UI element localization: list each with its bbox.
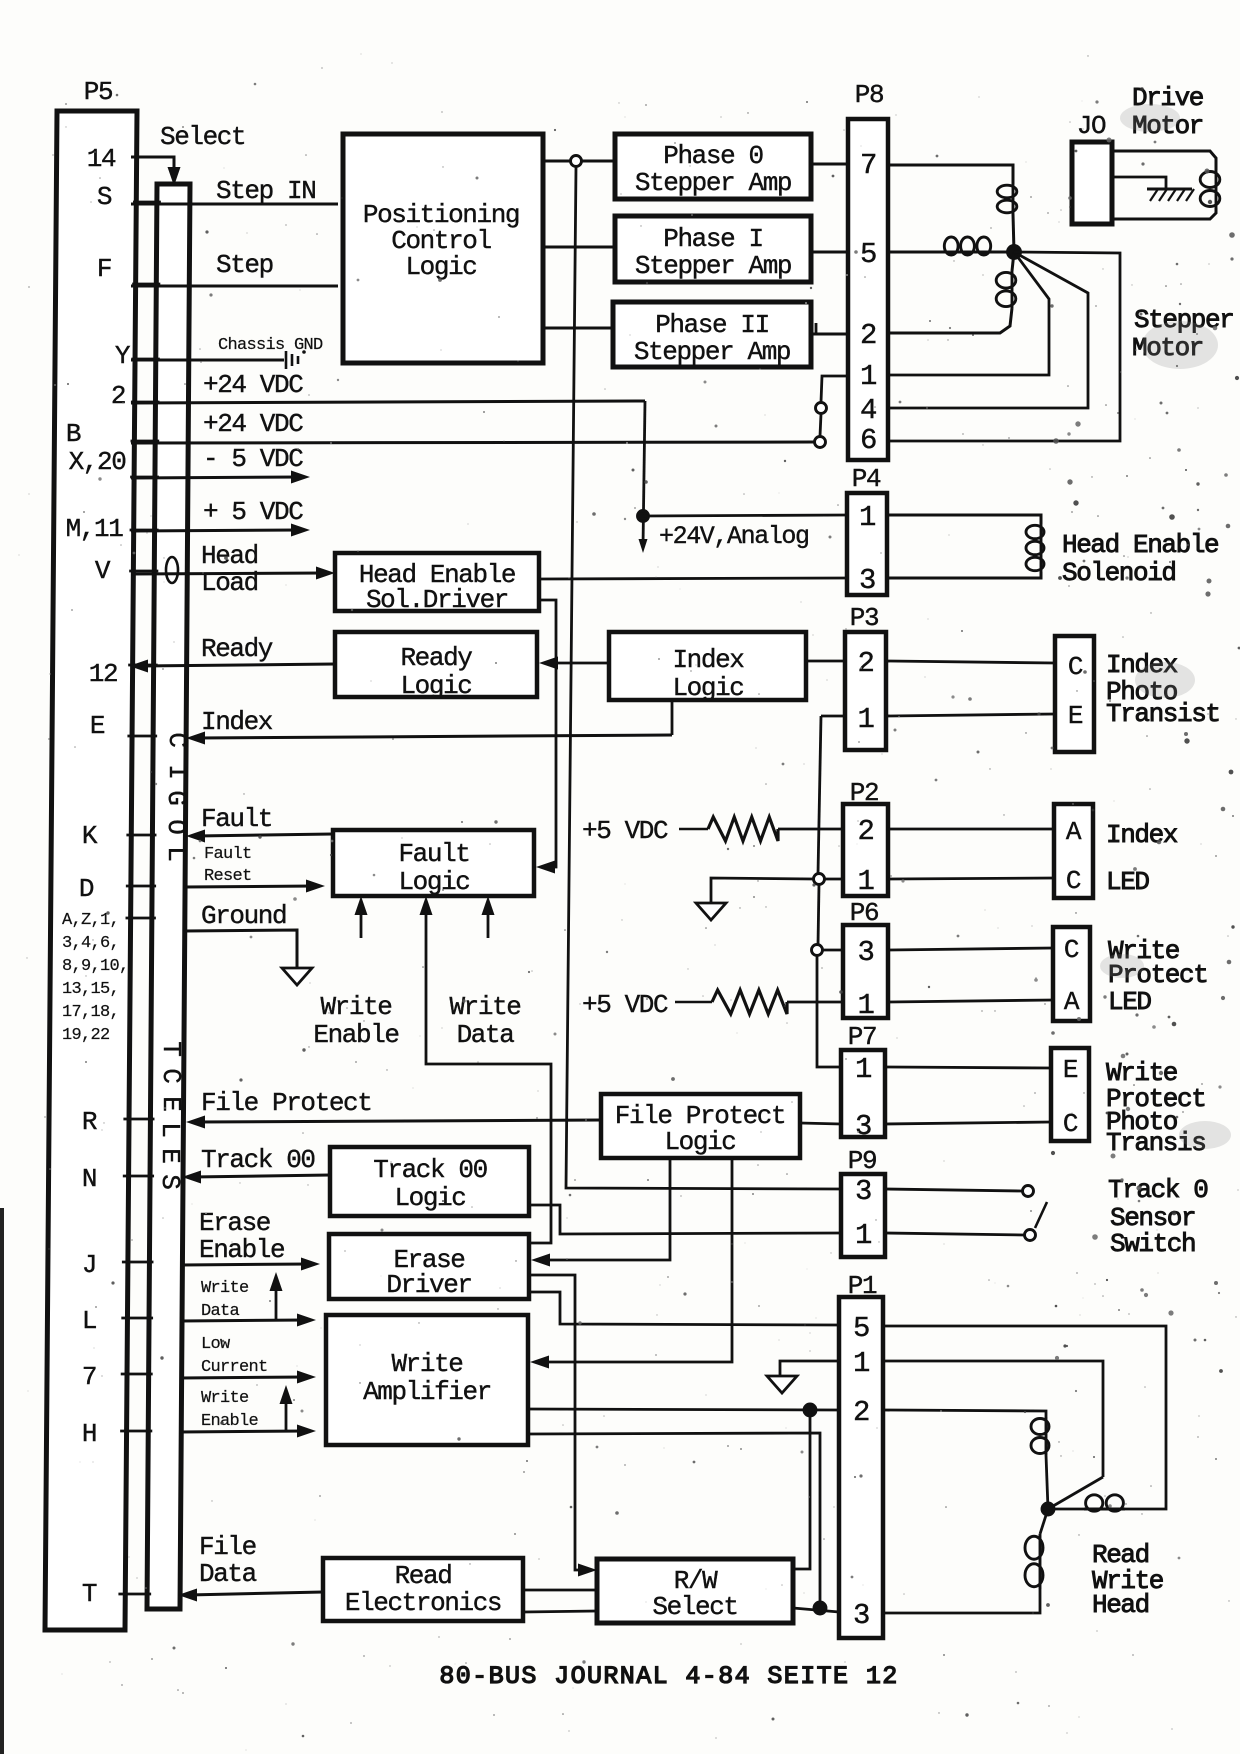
read head coil upper xyxy=(1031,1417,1049,1455)
label Write Enable small xyxy=(201,1389,259,1431)
svg-text:3: 3 xyxy=(859,564,875,597)
P5 pin label M,11 xyxy=(66,514,124,544)
svg-text:Y: Y xyxy=(115,341,131,371)
svg-text:17,18,: 17,18, xyxy=(62,1003,119,1022)
svg-text:C: C xyxy=(1063,1109,1078,1139)
wire file protect logic to P7.3 xyxy=(800,1123,841,1124)
box File Protect Logic xyxy=(601,1094,800,1158)
resistor R index led xyxy=(708,817,778,841)
svg-text:3: 3 xyxy=(857,936,873,969)
wire phase2 out to P8 pin 2 xyxy=(811,333,848,336)
ground symbol at P1 xyxy=(767,1376,797,1393)
wire index logic bottom to index line xyxy=(671,700,674,735)
svg-text:Logic: Logic xyxy=(664,1127,735,1157)
svg-text:F: F xyxy=(97,254,111,284)
wire P6.1 to WP LED A xyxy=(888,1000,1053,1002)
svg-text:X,20: X,20 xyxy=(69,447,126,477)
box index LED xyxy=(1054,804,1093,898)
svg-text:C: C xyxy=(162,732,192,748)
svg-text:Logic: Logic xyxy=(394,1183,465,1213)
svg-text:O: O xyxy=(161,819,191,835)
P5 pin label R xyxy=(82,1107,97,1137)
read head coil lower xyxy=(1025,1509,1048,1589)
svg-text:Track 00: Track 00 xyxy=(373,1155,487,1185)
svg-text:Ground: Ground xyxy=(201,901,286,931)
wire FPL to erase driver xyxy=(531,1158,670,1267)
wire step xyxy=(131,285,338,288)
svg-text:D: D xyxy=(79,874,94,904)
connector P4 xyxy=(847,464,887,597)
label Write Data xyxy=(449,992,520,1050)
svg-text:A: A xyxy=(1064,987,1080,1017)
svg-text:E: E xyxy=(1068,701,1083,731)
wire phase1 xyxy=(544,246,615,249)
svg-text:2: 2 xyxy=(857,647,873,680)
wire ground xyxy=(184,930,297,968)
svg-text:Write: Write xyxy=(391,1349,462,1379)
svg-text:N: N xyxy=(82,1164,96,1194)
svg-text:Head: Head xyxy=(1092,1590,1149,1620)
wire to P4 pin 1 xyxy=(643,515,847,516)
head enable solenoid coil xyxy=(1026,524,1044,572)
label + 5 VDC xyxy=(203,497,303,527)
wire +24V analog drop xyxy=(639,401,648,553)
P5 ground pins label A,Z,1,3,4,6,8,9,10,13,15,17,18,19,22 xyxy=(62,911,129,1045)
svg-text:3,4,6,: 3,4,6, xyxy=(62,934,119,953)
svg-text:LED: LED xyxy=(1108,987,1151,1017)
svg-text:S: S xyxy=(97,182,112,212)
label Index xyxy=(201,707,273,737)
connector P9 xyxy=(841,1146,885,1257)
P5 pin label B xyxy=(66,419,81,449)
signal Step IN label xyxy=(216,176,315,206)
svg-text:80-BUS JOURNAL 4-84 SEITE 12: 80-BUS JOURNAL 4-84 SEITE 12 xyxy=(439,1662,898,1691)
svg-text:T: T xyxy=(156,1041,186,1057)
svg-text:P4: P4 xyxy=(852,464,881,494)
svg-text:P9: P9 xyxy=(848,1146,876,1176)
wire +5VDC xyxy=(131,524,310,537)
wire +5vdc 2 xyxy=(675,1001,712,1004)
svg-text:1: 1 xyxy=(859,501,875,534)
wire P8.5 to stepper coil xyxy=(888,251,943,254)
scan smudges xyxy=(1100,104,1231,1149)
svg-text:3: 3 xyxy=(855,1175,871,1208)
svg-text:JO: JO xyxy=(1077,111,1106,141)
svg-text:1: 1 xyxy=(857,989,873,1022)
svg-text:T: T xyxy=(82,1579,97,1609)
svg-text:Amplifier: Amplifier xyxy=(363,1377,491,1407)
svg-text:L: L xyxy=(161,846,191,862)
stepper coil phase2 (below junction) xyxy=(888,252,1016,333)
svg-text:+5 VDC: +5 VDC xyxy=(582,816,668,846)
fault logic write data riser xyxy=(420,896,552,1243)
svg-text:H: H xyxy=(82,1419,96,1449)
junction dot +24V analog xyxy=(638,511,649,522)
svg-text:Fault: Fault xyxy=(201,804,272,834)
wire P2.1 to index LED C xyxy=(888,878,1054,879)
wire select (pin 14 to bar top) xyxy=(131,157,181,186)
svg-text:Phase 0: Phase 0 xyxy=(663,141,762,171)
box Fault Logic xyxy=(333,830,534,897)
P5 pin label H xyxy=(82,1419,96,1449)
box Phase I Stepper Amp xyxy=(615,216,811,282)
svg-text:Write: Write xyxy=(449,992,520,1022)
svg-text:P7: P7 xyxy=(848,1022,876,1052)
svg-text:13,15,: 13,15, xyxy=(62,980,119,999)
wire junction to P8 pin 4 xyxy=(888,252,1088,408)
svg-text:P3: P3 xyxy=(850,603,878,633)
svg-text:Current: Current xyxy=(201,1358,268,1377)
write enable branch arrow up xyxy=(280,1385,293,1431)
svg-text:Logic: Logic xyxy=(672,673,743,703)
circle at P8 pin 4 feed xyxy=(816,403,827,414)
svg-text:Data: Data xyxy=(199,1559,257,1589)
wire coil to junction 2 xyxy=(992,251,1014,254)
P5 pin stub wires xyxy=(118,157,161,1594)
P5 pin label L xyxy=(82,1306,96,1336)
wire -5VDC xyxy=(131,471,310,484)
label +5 VDC (index led) xyxy=(582,816,668,846)
wire junction to P8 pin 6 xyxy=(888,252,1120,441)
svg-text:Electronics: Electronics xyxy=(345,1588,501,1618)
box Write Amplifier xyxy=(326,1315,528,1445)
wire erase enable xyxy=(181,1258,320,1271)
label Ready xyxy=(201,634,273,664)
vertical label LOGIC xyxy=(161,732,192,862)
svg-text:L: L xyxy=(82,1306,96,1336)
box Index Logic xyxy=(609,632,806,703)
box Erase Driver xyxy=(329,1234,529,1300)
drive motor chassis ground xyxy=(1147,189,1194,201)
svg-text:Ready: Ready xyxy=(400,643,472,673)
svg-text:1: 1 xyxy=(857,865,873,898)
label Erase Enable xyxy=(199,1208,284,1265)
svg-text:Stepper Amp: Stepper Amp xyxy=(634,337,790,367)
P5 pin label 14 xyxy=(87,144,116,174)
label Index Photo Transistor xyxy=(1106,650,1220,729)
label File Data xyxy=(199,1532,257,1589)
label Stepper Motor xyxy=(1132,305,1233,363)
wire track 00 xyxy=(182,1171,330,1184)
svg-text:19,22: 19,22 xyxy=(62,1026,110,1045)
wire index (to bar at pin E) xyxy=(186,732,672,745)
svg-text:M,11: M,11 xyxy=(66,514,124,544)
wire circle to P6.3 xyxy=(822,949,843,952)
label Head Enable Solenoid xyxy=(1062,530,1218,588)
wire write data xyxy=(180,1314,316,1327)
label Fault xyxy=(201,804,272,834)
svg-text:6: 6 xyxy=(860,424,876,457)
svg-text:C: C xyxy=(156,1068,186,1084)
svg-text:Read: Read xyxy=(395,1561,452,1591)
svg-text:File: File xyxy=(199,1532,256,1562)
wire FPL to write amplifier xyxy=(530,1158,732,1369)
wire dot to R/W select top xyxy=(793,1410,810,1569)
ground symbol (logic ground) xyxy=(282,968,312,985)
wire index logic to P3 pin 2 xyxy=(806,660,845,663)
label Track 00 xyxy=(201,1145,315,1175)
svg-text:Head: Head xyxy=(201,541,258,571)
fault logic third stub xyxy=(482,896,495,938)
select-logic bar xyxy=(147,184,190,1609)
svg-text:+5 VDC: +5 VDC xyxy=(582,990,668,1020)
svg-text:L: L xyxy=(155,1122,185,1138)
svg-text:Write: Write xyxy=(201,1279,249,1298)
svg-text:Erase: Erase xyxy=(199,1208,270,1238)
svg-text:Sol.Driver: Sol.Driver xyxy=(366,585,508,615)
svg-text:Logic: Logic xyxy=(400,671,471,701)
wire phase0 out to P8 pin 7 xyxy=(811,163,848,166)
long vertical wire (phase0 circle down to P9 pin 3) xyxy=(566,167,841,1189)
box Phase 0 Stepper Amp xyxy=(615,134,811,199)
wire index logic to ready logic xyxy=(539,657,609,670)
label File Protect xyxy=(201,1088,371,1118)
box Ready Logic xyxy=(335,632,537,701)
svg-text:1: 1 xyxy=(857,703,873,736)
svg-text:Data: Data xyxy=(457,1020,515,1050)
svg-text:+24 VDC: +24 VDC xyxy=(203,370,303,400)
drive motor winding xyxy=(1112,151,1220,219)
svg-text:+24 VDC: +24 VDC xyxy=(203,409,303,439)
svg-text:J: J xyxy=(82,1250,96,1280)
vertical label SELECT xyxy=(155,1041,186,1190)
wire write amp second output xyxy=(528,1433,820,1608)
stepper coil phase1 (horizontal) xyxy=(943,237,992,255)
wire file data xyxy=(178,1589,323,1602)
stepper coil phase0 xyxy=(997,184,1017,214)
wire circle to P2.1 xyxy=(824,878,843,881)
wire +24VDC upper xyxy=(131,401,645,403)
svg-text:C: C xyxy=(1068,652,1083,682)
wire coil to junction xyxy=(1013,214,1014,252)
wire phase2 xyxy=(544,327,613,330)
P5 pin label J xyxy=(82,1250,96,1280)
wire P9.1 to switch xyxy=(885,1233,1024,1235)
svg-text:I: I xyxy=(162,764,192,780)
svg-text:5: 5 xyxy=(853,1312,869,1345)
box Head Enable Sol.Driver xyxy=(335,553,539,615)
wire low current xyxy=(180,1371,316,1384)
wire P2.2 to index LED A xyxy=(888,828,1054,831)
svg-text:Phase II: Phase II xyxy=(655,310,769,340)
P5 pin label Y xyxy=(115,341,131,371)
label Track 0 Sensor Switch xyxy=(1108,1175,1207,1259)
wire read electronics to R/W select 1 xyxy=(523,1589,597,1592)
box Positioning Control Logic xyxy=(343,134,543,363)
svg-text:A: A xyxy=(1066,817,1082,847)
wire track00 logic to P9 pin 1 xyxy=(529,1205,841,1234)
P5 pin label K xyxy=(82,821,98,851)
ground symbol at P2 xyxy=(696,903,726,920)
P5 pin label X,20 xyxy=(69,447,126,477)
svg-text:Reset: Reset xyxy=(204,867,252,886)
svg-text:K: K xyxy=(82,821,98,851)
wire head load xyxy=(131,567,335,580)
svg-text:Low: Low xyxy=(201,1335,231,1354)
svg-text:2: 2 xyxy=(853,1396,869,1429)
head junction dot xyxy=(1042,1503,1054,1515)
wire P1.2 to head coil xyxy=(883,1410,1046,1417)
svg-text:Index: Index xyxy=(201,707,273,737)
circle at P8 pin 6 feed xyxy=(815,437,826,448)
box Phase II Stepper Amp xyxy=(613,302,811,367)
connector J0 xyxy=(1072,111,1112,224)
svg-text:4: 4 xyxy=(860,394,876,427)
connector P5 (interface edge connector) xyxy=(45,77,137,1630)
svg-text:1: 1 xyxy=(860,360,876,393)
label +24 VDC (pin B) xyxy=(203,409,303,439)
svg-text:Chassis GND: Chassis GND xyxy=(218,336,323,355)
svg-text:Ready: Ready xyxy=(201,634,273,664)
svg-text:Transist: Transist xyxy=(1106,699,1220,729)
wire fault xyxy=(186,830,333,843)
P5 pin label F xyxy=(97,254,111,284)
label Chassis GND xyxy=(218,336,323,355)
label - 5 VDC xyxy=(203,444,303,474)
wire coil to head junction xyxy=(1048,1508,1084,1511)
svg-text:Enable: Enable xyxy=(313,1020,398,1050)
wire P1.1 to head xyxy=(883,1361,1103,1509)
wire head to P1 pin 3 xyxy=(883,1589,1040,1613)
svg-text:P2: P2 xyxy=(850,778,878,808)
svg-text:G: G xyxy=(161,790,191,806)
wire read electronics to R/W select 2 xyxy=(523,1611,597,1612)
phase2 wire tick xyxy=(815,323,818,334)
wire P7.3 to WP photo C xyxy=(885,1122,1051,1124)
svg-text:Select: Select xyxy=(160,122,245,152)
wire file protect xyxy=(186,1116,601,1129)
wire P1.5 to head common xyxy=(883,1326,1166,1509)
drive motor ground tap xyxy=(1112,177,1166,189)
P5 pin label N xyxy=(82,1164,96,1194)
svg-text:P6: P6 xyxy=(850,898,878,928)
connector P2 xyxy=(843,778,888,898)
svg-text:2: 2 xyxy=(860,319,876,352)
wire +24VDC lower (to P8 pin 6 circle) xyxy=(131,442,814,443)
box Read Electronics xyxy=(323,1558,523,1621)
label +24V,Analog xyxy=(659,522,809,551)
junction dot at P1 pin 2 xyxy=(804,1404,816,1416)
wire resistor to P6 pin 1 xyxy=(787,1001,843,1004)
svg-text:+24V,Analog: +24V,Analog xyxy=(659,522,809,551)
label Index LED xyxy=(1106,820,1178,897)
wire P3.2 to photo transistor C xyxy=(886,661,1055,663)
svg-text:E: E xyxy=(156,1096,186,1112)
svg-text:5: 5 xyxy=(860,238,876,271)
wire resistor to P2 pin 2 xyxy=(778,828,843,831)
svg-text:8,9,10,: 8,9,10, xyxy=(62,957,129,976)
track 0 sensor switch xyxy=(1023,1186,1048,1241)
box index photo transistor xyxy=(1055,636,1094,752)
svg-text:E: E xyxy=(1063,1055,1078,1085)
wire P7.1 to WP photo E xyxy=(885,1067,1051,1068)
wire P9.3 to switch xyxy=(885,1189,1022,1191)
svg-text:S: S xyxy=(155,1174,185,1190)
svg-text:Fault: Fault xyxy=(204,845,252,864)
svg-text:Logic: Logic xyxy=(398,867,469,897)
wire P2 ground branch xyxy=(711,878,814,903)
svg-text:P8: P8 xyxy=(855,80,883,110)
svg-text:12: 12 xyxy=(89,659,117,689)
junction circle on phase0 wire xyxy=(571,156,582,167)
box write protect LED xyxy=(1053,927,1090,1021)
label +24 VDC (pin 2) xyxy=(203,370,303,400)
chassis ground symbol xyxy=(286,350,306,369)
svg-text:Head Enable: Head Enable xyxy=(1062,530,1218,560)
wire chassis gnd xyxy=(131,359,284,362)
svg-text:R: R xyxy=(82,1107,97,1137)
svg-text:Data: Data xyxy=(201,1302,240,1321)
label +5 VDC (write protect led) xyxy=(582,990,668,1020)
svg-text:Write: Write xyxy=(201,1389,249,1408)
wire head enable driver to P4 pin 3 xyxy=(539,578,847,579)
signal Select label xyxy=(160,122,245,152)
P5 pin label 7 xyxy=(82,1362,96,1392)
wire P8.7 to stepper coil xyxy=(888,165,1013,184)
connector P6 xyxy=(843,898,888,1022)
connector P8 xyxy=(848,80,888,460)
svg-text:3: 3 xyxy=(853,1599,869,1632)
svg-text:Write: Write xyxy=(320,992,391,1022)
label Low Current xyxy=(201,1335,268,1377)
wire +5vdc 1 xyxy=(679,828,708,831)
junction dot at R/W output xyxy=(814,1602,826,1614)
svg-text:P5: P5 xyxy=(84,77,112,107)
svg-text:1: 1 xyxy=(853,1347,869,1380)
box Track 00 Logic xyxy=(330,1147,529,1216)
wire write amp to P1 pin 2 xyxy=(528,1409,839,1410)
svg-text:7: 7 xyxy=(860,149,876,182)
svg-text:Stepper Amp: Stepper Amp xyxy=(635,251,791,281)
label Write Enable xyxy=(313,992,398,1050)
svg-text:+ 5 VDC: + 5 VDC xyxy=(203,497,303,527)
svg-text:Stepper Amp: Stepper Amp xyxy=(635,168,791,198)
svg-text:C: C xyxy=(1064,935,1079,965)
circle at P6 pin 3 xyxy=(812,945,823,956)
svg-text:E: E xyxy=(90,711,105,741)
stepper junction dot xyxy=(1008,246,1021,259)
wire write enable xyxy=(179,1425,316,1438)
scan edge artifact left xyxy=(0,1208,4,1754)
wire P4.1 to solenoid xyxy=(887,515,1041,524)
wire phase0 (positioning to Phase 0 amp) xyxy=(544,160,615,163)
P5 pin label S xyxy=(97,182,112,212)
wire junction to P8 pin 1 xyxy=(888,252,1049,375)
svg-text:P1: P1 xyxy=(848,1271,877,1301)
svg-text:Switch: Switch xyxy=(1110,1229,1195,1259)
label Read Write Head xyxy=(1092,1540,1163,1620)
svg-text:1: 1 xyxy=(855,1219,871,1252)
svg-text:Step: Step xyxy=(216,250,273,280)
label Fault Reset xyxy=(204,845,252,886)
wire phase1 out to P8 pin 5 xyxy=(811,251,848,254)
svg-text:2: 2 xyxy=(857,815,873,848)
label Write Protect LED xyxy=(1108,936,1207,1017)
caption 80-BUS JOURNAL 4-84 SEITE 12 xyxy=(439,1662,898,1691)
svg-text:Solenoid: Solenoid xyxy=(1062,558,1176,588)
svg-text:File Protect: File Protect xyxy=(201,1088,371,1118)
P5 pin label V xyxy=(95,556,111,586)
box R/W Select xyxy=(597,1559,793,1623)
label Ground xyxy=(201,901,286,931)
label Head Load xyxy=(201,541,258,598)
svg-text:14: 14 xyxy=(87,144,116,174)
connector P3 xyxy=(845,603,886,750)
label Write Protect Photo Transistor xyxy=(1106,1058,1205,1158)
wire P6.3 to WP LED C xyxy=(888,948,1053,950)
P5 pin label E xyxy=(90,711,105,741)
fault logic write enable stub xyxy=(355,896,368,938)
